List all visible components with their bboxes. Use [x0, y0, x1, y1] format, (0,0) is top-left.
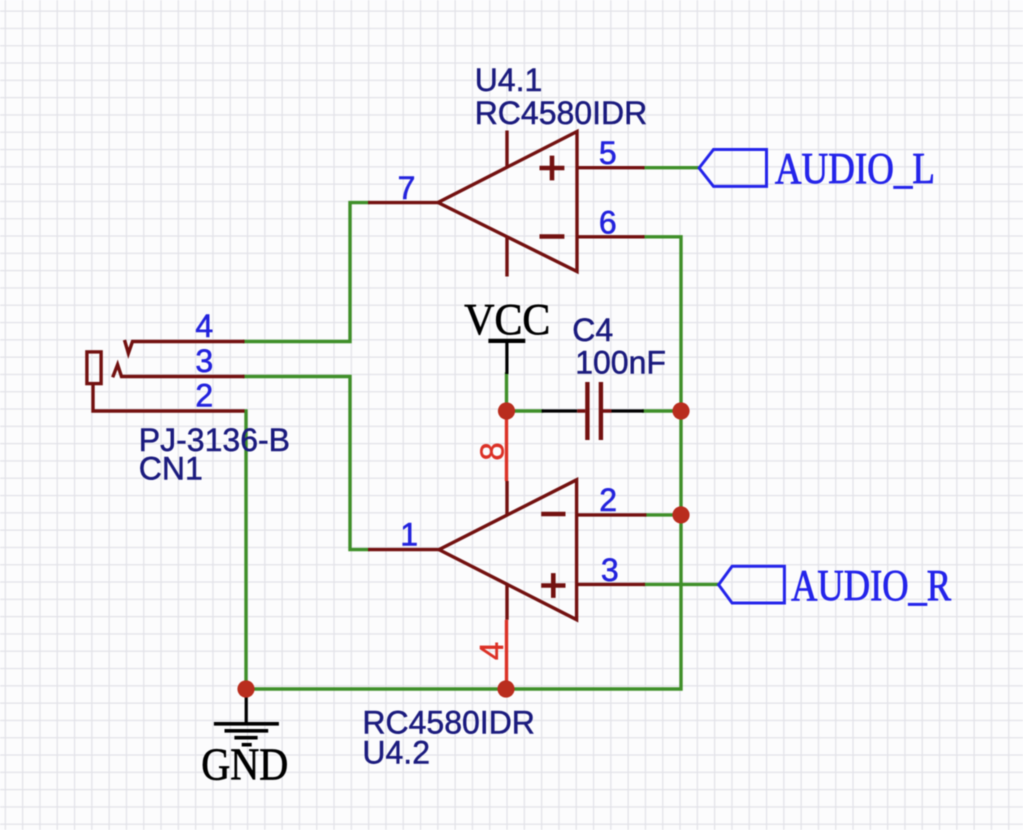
svg-text:AUDIO_L: AUDIO_L: [775, 144, 935, 193]
svg-text:CN1: CN1: [139, 451, 203, 487]
svg-text:RC4580IDR: RC4580IDR: [475, 95, 648, 131]
svg-text:3: 3: [601, 552, 619, 588]
svg-text:100nF: 100nF: [575, 344, 666, 380]
svg-text:VCC: VCC: [464, 295, 550, 344]
svg-text:4: 4: [473, 642, 510, 660]
svg-text:4: 4: [195, 308, 213, 344]
svg-text:GND: GND: [201, 740, 288, 790]
svg-text:C4: C4: [572, 312, 613, 348]
svg-text:5: 5: [599, 135, 617, 171]
svg-text:7: 7: [398, 170, 416, 206]
svg-text:U4.1: U4.1: [475, 62, 543, 98]
svg-text:3: 3: [195, 343, 213, 379]
svg-text:2: 2: [195, 378, 213, 414]
svg-text:1: 1: [400, 517, 418, 553]
svg-text:6: 6: [599, 204, 617, 240]
svg-text:2: 2: [599, 482, 617, 518]
svg-text:U4.2: U4.2: [362, 735, 430, 771]
svg-text:8: 8: [474, 442, 511, 460]
svg-text:AUDIO_R: AUDIO_R: [791, 561, 952, 610]
